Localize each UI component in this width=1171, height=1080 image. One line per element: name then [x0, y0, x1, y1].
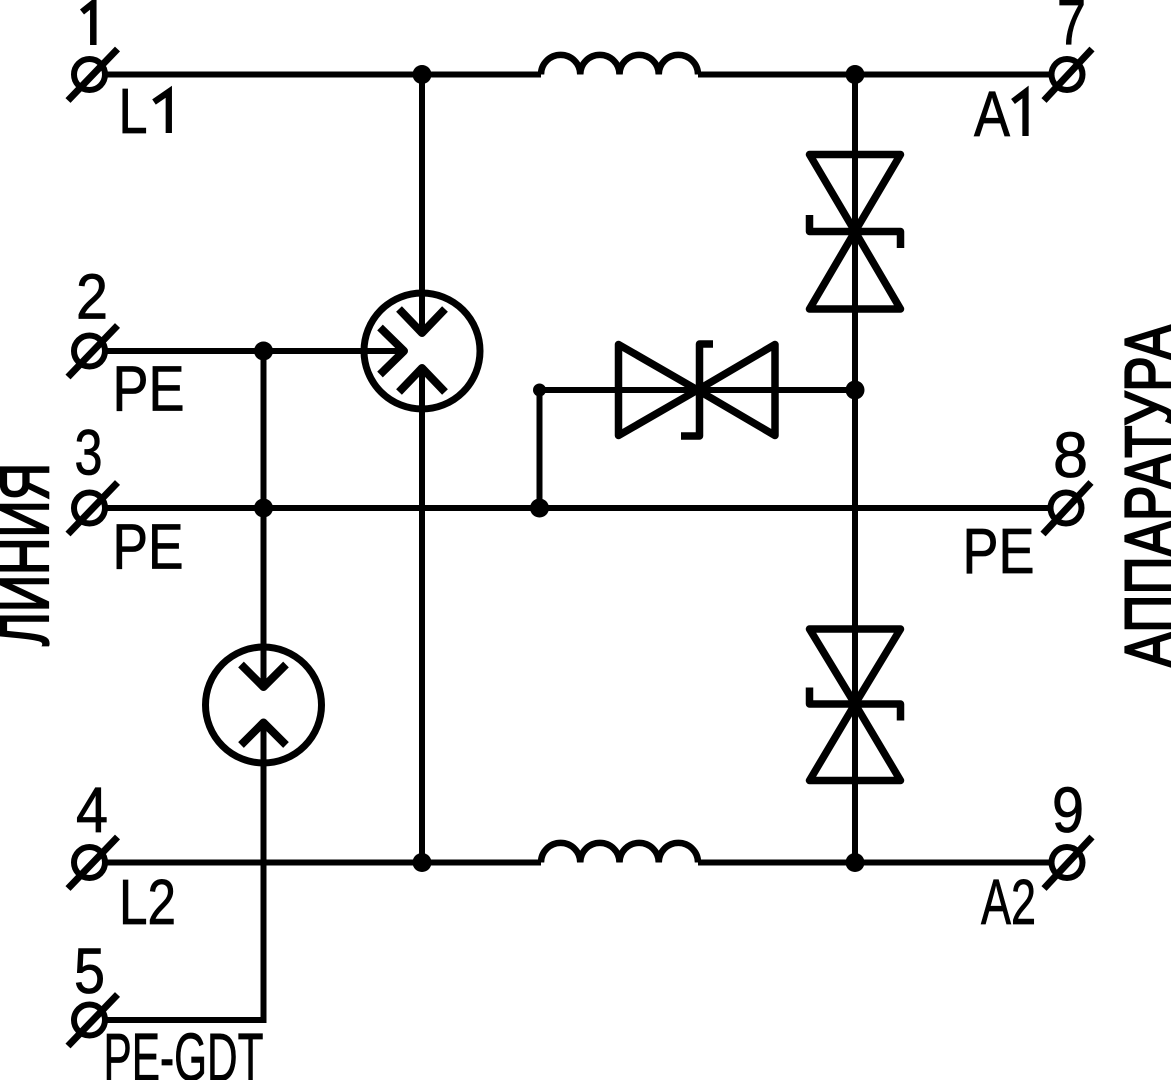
TVS diode D1 center bar with hooks — [681, 344, 713, 436]
TVS diode D3 center bar with hooks — [810, 688, 901, 721]
svg-text:PE: PE — [963, 515, 1035, 587]
wire L1 left segment (terminal 1 to inductor) — [107, 72, 541, 78]
node PE line / vertical junction — [254, 499, 273, 518]
arrester GDT F2 bottom arrow — [241, 723, 286, 746]
terminal 3 slash — [68, 483, 118, 535]
arrester GDT F1 bottom arrow — [399, 368, 445, 392]
wire TVS D1 left lead vertical (PE node up to diode line) — [537, 390, 543, 508]
arrester GDT F1 top arrow — [399, 309, 445, 333]
TVS diode D1 right triangle — [698, 345, 776, 436]
arrester GDT F1 (3-electrode) circle — [364, 293, 480, 409]
wire terminal 2 to GDT F1 left electrode — [107, 348, 403, 354]
inductor L bottom (4 humps) — [541, 843, 698, 863]
wire vertical from terminal2 node down to PE line — [261, 351, 267, 508]
svg-text:L2: L2 — [119, 866, 176, 938]
node L1/GDT junction — [413, 65, 432, 84]
terminal 5 circle — [74, 1005, 105, 1036]
wire PE node down to GDT F2 top electrode — [261, 508, 267, 687]
svg-text:7: 7 — [1057, 0, 1086, 59]
wire vertical from L1 node down to GDT F1 top electrode — [419, 75, 425, 334]
node TVS D1 corner — [533, 384, 546, 397]
svg-text:ЛИНИЯ: ЛИНИЯ — [0, 463, 63, 646]
node L2 / TVS bus junction — [846, 853, 865, 872]
svg-text:9: 9 — [1052, 774, 1084, 846]
TVS diode D3 bottom triangle — [810, 704, 901, 781]
svg-text:АППАРАТУРА: АППАРАТУРА — [1111, 325, 1171, 668]
svg-text:L: L — [119, 75, 148, 147]
terminal 9 circle — [1052, 847, 1083, 878]
wire L2 left segment (terminal 4 to inductor) — [107, 860, 541, 866]
TVS diode D2 bottom triangle — [810, 232, 901, 310]
pin number 1 — [82, 3, 93, 45]
terminal 4 slash — [68, 837, 118, 889]
wire GDT F1 bottom electrode down to L2 node — [419, 368, 425, 863]
wire L1 right segment (inductor to terminal 7) — [698, 72, 1049, 78]
node terminal2 wire junction — [254, 342, 273, 361]
arrester GDT F2 (2-electrode) circle — [206, 647, 322, 763]
terminal 7 slash — [1044, 49, 1092, 101]
terminal 5 slash — [68, 995, 118, 1047]
svg-text:4: 4 — [76, 774, 108, 846]
wire PE line (terminal 3 to terminal 8) — [107, 505, 1049, 511]
wire L2 right segment (inductor to terminal 9) — [698, 860, 1049, 866]
TVS diode D2 top triangle — [810, 155, 901, 232]
terminal 1 circle — [74, 59, 105, 90]
svg-text:3: 3 — [75, 417, 103, 489]
svg-text:A2: A2 — [981, 866, 1036, 938]
node TVS D1 / bus junction — [846, 381, 865, 400]
arrester GDT F1 left arrow — [380, 328, 404, 375]
TVS diode D3 top triangle — [810, 629, 901, 704]
wire GDT F2 bottom electrode down and left to terminal 5 — [107, 723, 264, 1021]
terminal 7 circle — [1052, 59, 1083, 90]
node L2 / GDT junction — [413, 853, 432, 872]
arrester GDT F2 top arrow — [241, 665, 286, 688]
inductor L top (4 humps) — [541, 55, 698, 75]
wire TVS D1 horizontal line — [540, 387, 856, 393]
terminal 8 slash — [1043, 483, 1091, 535]
svg-text:5: 5 — [74, 935, 105, 1007]
terminal 1 slash — [68, 49, 118, 101]
svg-text:A: A — [974, 78, 1010, 150]
terminal 8 circle — [1051, 493, 1082, 524]
svg-text:8: 8 — [1053, 419, 1088, 491]
terminal 2 slash — [68, 326, 118, 378]
svg-text:PE: PE — [113, 511, 184, 583]
svg-text:PE-GDT: PE-GDT — [104, 1019, 264, 1080]
wire vertical right bus (L1 node through TVS D2, D3 to L2 node) — [852, 75, 858, 863]
terminal 3 circle — [74, 493, 105, 524]
terminal 2 circle — [74, 336, 105, 367]
svg-text:2: 2 — [76, 261, 108, 333]
TVS diode D1 left triangle — [619, 345, 698, 436]
terminal 4 circle — [74, 847, 105, 878]
node PE line / TVS D1 lead junction — [530, 499, 549, 518]
node L1/TVS bus junction — [846, 65, 865, 84]
svg-text:PE: PE — [113, 353, 185, 425]
terminal 9 slash — [1044, 837, 1092, 889]
TVS diode D2 center bar with hooks — [810, 215, 901, 248]
